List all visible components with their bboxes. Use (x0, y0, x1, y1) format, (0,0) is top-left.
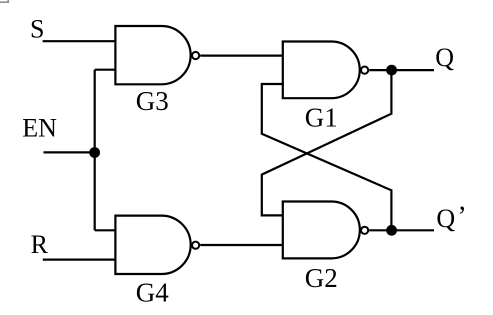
svg-text:G3: G3 (136, 86, 169, 116)
svg-text:G1: G1 (305, 102, 338, 132)
svg-text:Q: Q (436, 204, 455, 233)
svg-text:G4: G4 (136, 278, 169, 308)
svg-text:’: ’ (457, 202, 466, 233)
svg-text:EN: EN (22, 113, 57, 142)
svg-text:R: R (31, 230, 49, 259)
svg-text:Q: Q (435, 43, 454, 72)
svg-text:G2: G2 (305, 263, 338, 293)
svg-text:S: S (30, 15, 44, 44)
